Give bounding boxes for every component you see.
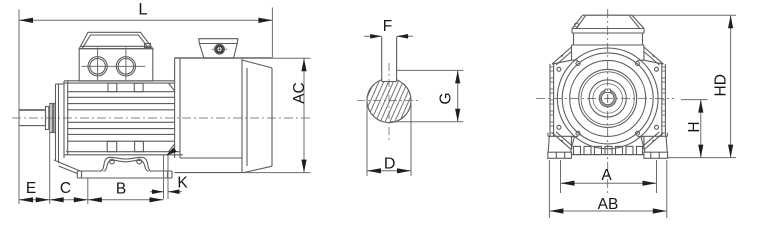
svg-text:E: E — [26, 180, 36, 197]
svg-text:K: K — [177, 175, 188, 192]
svg-text:B: B — [116, 180, 126, 197]
svg-text:A: A — [601, 167, 612, 184]
svg-text:AC: AC — [291, 82, 308, 104]
svg-text:C: C — [60, 180, 71, 197]
svg-text:F: F — [383, 18, 392, 35]
svg-text:L: L — [138, 1, 147, 19]
svg-text:H: H — [686, 121, 703, 132]
svg-text:D: D — [384, 156, 396, 173]
svg-text:G: G — [438, 92, 455, 104]
svg-text:AB: AB — [598, 196, 619, 213]
svg-text:HD: HD — [713, 74, 730, 96]
